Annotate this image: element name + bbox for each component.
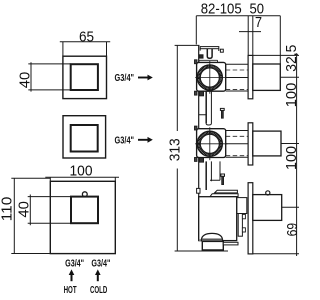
svg-text:65: 65 [79, 28, 94, 45]
mounting rail (back edge) [198, 45, 200, 240]
bracket screw slot [207, 49, 212, 59]
K2 knurled ring hatch [197, 131, 222, 156]
svg-text:313: 313 [166, 138, 183, 161]
dim 313 [175, 45, 228, 251]
bolt B1 head [220, 49, 223, 52]
svg-text:G3/4": G3/4" [65, 258, 84, 269]
svg-text:69: 69 [284, 223, 300, 237]
handle H2 side [253, 131, 281, 156]
cartridge K1 body [197, 62, 226, 91]
K2 bottom-left block [199, 158, 203, 162]
right dimension column line [253, 53, 299, 256]
drain step right [223, 242, 238, 245]
mixer body [199, 197, 237, 241]
stem step A [237, 198, 247, 214]
K2 clip tab upper [195, 126, 198, 130]
K1 hidden lines [226, 70, 248, 89]
K2 housing lines to plate [226, 131, 248, 158]
K2 clip tab lower [195, 158, 198, 162]
plate P3 inner square (mixer knob) [71, 197, 98, 224]
svg-text:32,5: 32,5 [283, 45, 300, 72]
bolt B2 shaft [221, 110, 223, 118]
outlet band [199, 239, 223, 241]
plate P2 outer (middle 65mm plate, front view) [63, 116, 106, 158]
dim 7 (plate thickness) [239, 16, 261, 56]
K1 top lip line [199, 60, 218, 62]
plate P3 outer (100x110 plate, front view) [50, 181, 115, 253]
K2 outer circle [197, 131, 222, 156]
knob button bump side [266, 191, 270, 195]
K1 bottom-left block [199, 92, 203, 96]
svg-text:G3/4": G3/4" [91, 258, 110, 269]
K1 crosshair [195, 61, 227, 94]
K1 housing lines to plate [226, 64, 248, 91]
K1 clip tab upper [195, 60, 198, 64]
stem lower shaft [238, 214, 242, 237]
plate P1 outer (65mm trim plate, front view) [63, 56, 107, 98]
connecting tube K1-K2 [199, 91, 212, 125]
K1 clip tab lower [195, 91, 198, 95]
bracket end caps [200, 49, 219, 51]
stem notch upper [242, 214, 245, 218]
K2 crosshair [195, 127, 227, 160]
plate P1 inner square (handle) [71, 64, 98, 90]
K1 inner circle [200, 68, 219, 87]
svg-text:40: 40 [16, 72, 33, 89]
mixer top bar 1 [215, 190, 238, 193]
K2 body [197, 129, 226, 158]
svg-text:HOT: HOT [64, 285, 77, 296]
svg-text:7: 7 [255, 14, 262, 31]
arrow up hot [71, 274, 73, 281]
mixer top bar 2 [210, 194, 238, 197]
svg-text:100: 100 [283, 83, 300, 108]
plate P3 side [248, 183, 253, 254]
svg-text:G3/4": G3/4" [115, 73, 135, 84]
dim 110 [11, 178, 50, 254]
dim 100 line (big plate) [45, 177, 119, 181]
svg-text:100: 100 [70, 163, 93, 180]
dim 40 (P1) [28, 62, 70, 91]
outlet pipe [202, 241, 223, 250]
K2 hidden lines [226, 136, 248, 155]
arch base sides [202, 239, 223, 241]
dim 40 (P3) [28, 195, 71, 226]
cartridge K2 assembly (copy of K1 shifted down) [195, 126, 249, 162]
bolt B3 head [221, 174, 225, 176]
svg-text:100: 100 [283, 146, 300, 170]
svg-text:40: 40 [15, 201, 32, 218]
plate P2 side [248, 123, 253, 165]
knob K3 side [253, 195, 282, 221]
bolt B2 head [220, 108, 224, 110]
dim 82-105 / 50 top line [196, 16, 280, 64]
connecting tube K2-bottom [210, 161, 220, 181]
rail step block [199, 55, 203, 58]
arrow up cold [97, 274, 99, 281]
svg-text:G3/4": G3/4" [115, 135, 135, 146]
handle H1 side [253, 64, 280, 90]
plate P2 inner square [71, 125, 98, 152]
arrow right row1 [138, 77, 148, 79]
knob button bump (front) [82, 192, 87, 197]
plate P1 side [248, 55, 253, 98]
dim 65 line [60, 42, 110, 56]
stem notch lower [242, 228, 245, 232]
outlet arch [201, 233, 222, 239]
arrow right row2 [138, 139, 148, 141]
top bracket bar [199, 47, 223, 59]
rail hook tab [197, 188, 200, 193]
K1 knurled ring hatch [197, 65, 222, 90]
K2 inner circle [200, 134, 219, 153]
bolt B3 shaft [222, 176, 224, 184]
svg-text:110: 110 [0, 197, 15, 222]
svg-text:82-105: 82-105 [201, 1, 242, 18]
svg-text:COLD: COLD [90, 285, 107, 296]
K1 outer circle [197, 65, 222, 90]
